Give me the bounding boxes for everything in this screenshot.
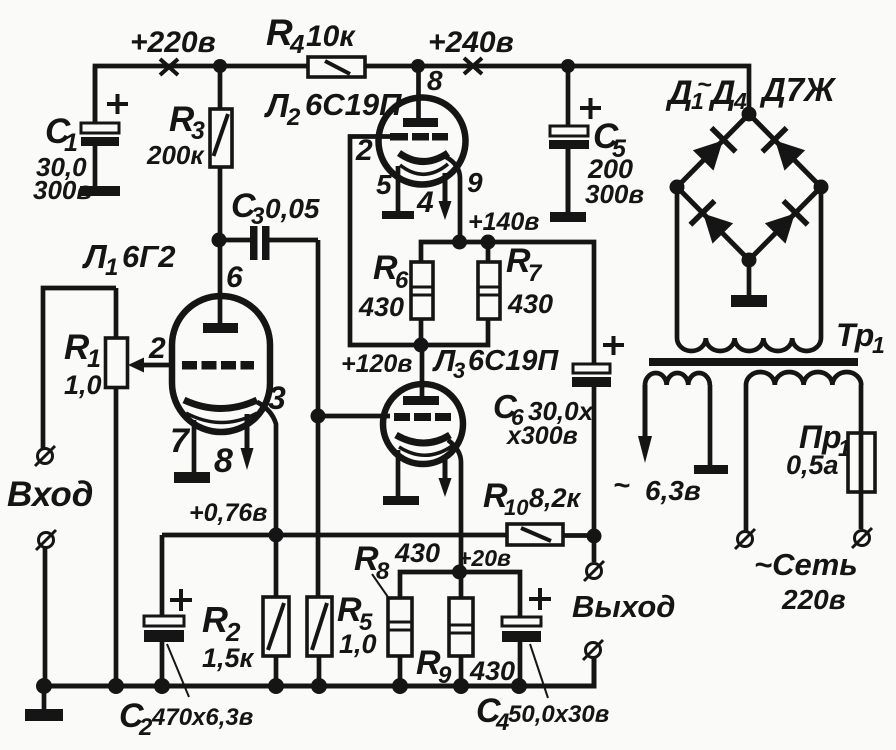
ground (main) [25,709,63,721]
wire mains right lead [859,385,864,529]
svg-text:6С19П: 6С19П [468,345,559,377]
node rail C4 [511,678,527,694]
arrow heater Л1 (pin 8) [241,414,254,470]
fuse Пр1 [848,433,875,492]
svg-text:8,2к: 8,2к [529,483,582,513]
svg-text:4: 4 [416,186,434,219]
node rail-Л2 anode [411,59,425,73]
potentiometer R1 [106,288,128,686]
node rail R1 [108,678,124,694]
svg-text:~: ~ [613,470,630,502]
label R1 1,0 [64,328,102,400]
ground (Л1 pin 7) [174,472,210,483]
label R9 430 [416,644,515,689]
wire ground rail [40,658,594,686]
svg-text:+0,76в: +0,76в [189,499,267,527]
wire C3 to grid Л3 and R5 [316,240,321,597]
svg-text:8: 8 [214,442,233,480]
svg-text:6: 6 [395,267,409,294]
label R6 430 [358,249,409,322]
triode Л2 6С19П [379,66,466,185]
label C5 200 300в [585,117,644,209]
svg-text:10к: 10к [306,20,356,53]
svg-text:1: 1 [838,435,851,461]
svg-text:5: 5 [376,169,392,200]
diode Д1 (top-left arm) [691,128,736,173]
svg-text:8: 8 [427,65,443,96]
capacitor C1 [81,66,128,188]
svg-text:Выход: Выход [572,589,675,624]
wire to output upper terminal [592,536,597,562]
svg-text:Тр: Тр [836,317,874,353]
svg-text:Вход: Вход [7,475,93,514]
ground (C5) [550,212,586,222]
label R3 200к [146,100,205,170]
resistor R9 [449,598,473,686]
svg-text:3: 3 [453,358,465,383]
resistor R4 [308,57,365,77]
diode Д4 (bottom-right arm) [763,201,808,246]
svg-text:6: 6 [226,261,243,294]
node grid Л3 [311,409,326,424]
transformer Тр1 core [649,358,858,366]
node bridge right [814,180,829,195]
terminal Вход lower [36,530,56,550]
svg-text:430: 430 [394,538,440,568]
svg-text:~Сеть: ~Сеть [754,547,858,582]
resistor R10 [507,524,594,545]
svg-text:220в: 220в [781,584,846,615]
svg-text:9: 9 [438,662,452,689]
node R10-C6-output [587,529,602,544]
svg-text:6Г2: 6Г2 [122,239,176,274]
node rail C2 [154,678,170,694]
svg-text:+220в: +220в [130,26,216,59]
label Пр1 0,5а [786,419,851,480]
svg-text:1: 1 [87,345,101,373]
svg-text:2: 2 [286,104,301,131]
svg-text:~: ~ [697,71,712,99]
svg-text:1: 1 [872,332,885,358]
resistor R7 [478,262,500,319]
diode Д3 (bottom-left arm) [690,201,735,246]
svg-text:2: 2 [148,332,166,365]
label C4 50,0х30в [476,692,609,736]
svg-text:50,0х30в: 50,0х30в [508,701,609,728]
transformer winding 6,3в [645,373,710,385]
svg-text:+140в: +140в [468,208,539,236]
svg-text:8: 8 [376,558,390,585]
arrow heater Л3 (pin 4) [439,455,452,497]
svg-text:Д: Д [708,74,736,112]
svg-text:+240в: +240в [428,26,514,59]
node +140в R7 [481,235,496,250]
cross mark X2 on rail [464,58,482,74]
ground (C1) [80,186,120,196]
svg-text:3: 3 [268,380,286,416]
node rail R5 [311,678,327,694]
label Тр1 [836,317,885,358]
resistor R8 [388,598,412,686]
label R5 1,0 [337,591,377,659]
diode Д2 (top-right arm) [762,128,807,173]
wire grid link to Л3 [318,414,390,419]
wire Л2 cathode (pin 9) to +140в [446,157,460,242]
svg-text:0,5а: 0,5а [786,450,839,480]
terminal mains right [852,528,872,548]
svg-text:х300в: х300в [505,422,578,450]
svg-text:1: 1 [105,254,118,281]
node C3 junction [212,233,227,248]
wire +0,76в line to R10 [162,533,507,538]
transformer Тр1 HV winding [677,338,821,351]
wire mains left lead [744,385,749,531]
callout line C4 [530,644,548,698]
triode Л3 6С19П [383,384,463,464]
terminal Выход lower [583,640,603,660]
svg-text:10: 10 [504,495,529,520]
svg-text:0,05: 0,05 [265,193,320,224]
arrow heater Л2 (pin 4) [439,173,452,220]
svg-text:Д: Д [665,74,693,112]
wire Л1 grid to R1 wiper with arrow [128,358,172,373]
resistor R3 [210,66,232,240]
resistor R5 [307,597,332,686]
wire +140в line [421,242,594,364]
svg-text:4: 4 [289,29,305,59]
wire Л1 cathode (pin 3) down to +0,76в line [257,402,276,535]
node rail-R3 [213,59,227,73]
label ~Сеть 220в [754,547,858,615]
label C3 0,05 [231,187,320,230]
node rail-C5 [561,59,575,73]
callout line R8 [372,574,390,600]
node +20в [452,565,467,580]
callout line C2 [167,644,189,697]
resistor R2 [263,535,289,686]
node Л1 cathode / R2 [269,528,284,543]
wire bridge bottom to ground [747,260,752,296]
label C1 30,0 300в [33,112,92,205]
wire +120в line [421,319,488,396]
node bridge bottom [742,253,757,268]
svg-text:1,0: 1,0 [339,629,377,659]
label R4 10к [266,12,356,59]
svg-text:7: 7 [170,422,191,460]
transformer mains winding [746,372,861,385]
label R7 430 [506,242,553,319]
arrow 6,3в lead [638,385,652,463]
resistor R6 [411,262,433,319]
label Л2 6С19П [264,87,402,131]
label C2 470х6,3в [119,697,253,741]
capacitor C6 [572,336,624,536]
svg-text:2: 2 [138,714,153,741]
cross mark X1 on rail [160,59,178,75]
wire R7 top lead [486,242,491,262]
node rail R9 [453,678,469,694]
wire bridge right to winding [819,187,824,338]
node rail R8 [392,678,408,694]
ground (Л3 pin 5) [383,496,419,505]
capacitor C2 [144,535,192,686]
label R2 1,5к [202,599,255,673]
svg-text:430: 430 [469,656,515,686]
wire Л1 pin 7 [192,420,197,472]
wire +220в/+240в top rail [95,66,749,125]
diode bridge Д1-Д4 frame [677,114,821,260]
svg-text:9: 9 [467,167,483,198]
node +120в [414,338,429,353]
wire Л2 pin 5 [396,166,401,211]
svg-text:300в: 300в [585,179,644,209]
svg-text:R: R [266,12,293,53]
label ~6,3в [613,470,701,506]
terminal Вход upper [35,446,55,466]
svg-text:2: 2 [355,134,373,167]
triode Л1 6Г2 [172,240,270,432]
wire Л3 cathode (pin 9) to +20в [448,440,461,572]
ground (bridge) [731,295,767,307]
svg-text:Д7Ж: Д7Ж [759,71,837,108]
wire main ground stub [42,686,47,710]
node +140в Л2 cathode [452,235,467,250]
svg-text:430: 430 [358,292,404,322]
svg-text:1,0: 1,0 [64,370,102,400]
label Д1-Д4 [665,71,747,114]
svg-text:R: R [202,599,228,640]
wire input lower to ground rail [43,548,48,686]
capacitor C4 [502,588,551,685]
node bridge top [742,107,757,122]
node rail R2 [268,678,284,694]
node rail input [36,678,52,694]
svg-text:6С19П: 6С19П [305,87,402,122]
capacitor C3 [219,226,318,260]
svg-text:300в: 300в [33,175,92,205]
wire Л2 grid (pin 2) to +120в node [350,137,421,346]
terminal mains left [735,529,755,549]
svg-text:4: 4 [733,88,747,114]
capacitor C5 [549,66,601,212]
svg-text:1,5к: 1,5к [202,643,255,673]
wire Л3 pin 5 [396,450,401,496]
node bridge left [670,180,685,195]
ground (6,3в winding) [694,465,728,474]
label Л3 6С19П [432,343,559,383]
svg-text:470х6,3в: 470х6,3в [151,704,253,731]
svg-text:+120в: +120в [341,350,412,378]
svg-text:7: 7 [528,260,543,287]
wire R9 top lead [459,572,464,598]
label Л1 6Г2 [82,238,176,281]
ground (Л2 pin 5) [382,211,414,219]
wire 6,3в right lead [708,385,713,465]
label R10 8,2к [483,477,582,520]
label C6 30,0х х300в [493,388,595,450]
svg-text:430: 430 [507,289,553,319]
svg-text:6,3в: 6,3в [645,475,701,506]
wire bridge left to winding [675,187,680,338]
wire +20в line [400,572,520,617]
svg-text:+20в: +20в [458,545,511,571]
wire input box top [43,288,116,448]
svg-text:3: 3 [251,203,265,230]
svg-text:200к: 200к [146,140,205,170]
label R8 430 [354,538,440,585]
terminal Выход upper [584,561,604,581]
